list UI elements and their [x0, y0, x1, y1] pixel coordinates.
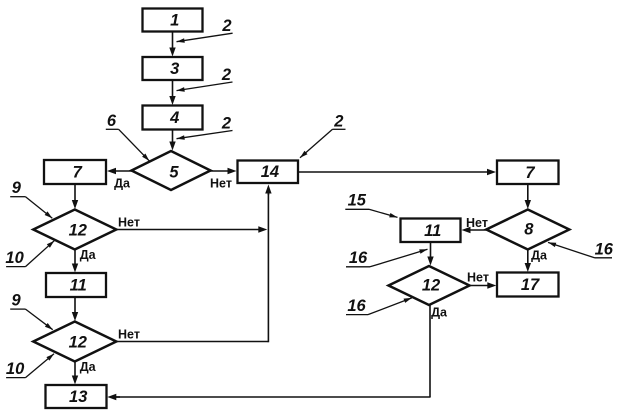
- svg-text:Нет: Нет: [467, 271, 489, 285]
- box 11 left: [46, 273, 106, 297]
- svg-text:17: 17: [521, 276, 540, 294]
- arrow 3-4: [172, 80, 174, 100]
- arrow 12a-11: [74, 250, 76, 268]
- arrow 5-7 Da: [112, 170, 131, 172]
- svg-text:Нет: Нет: [210, 177, 232, 191]
- svg-text:13: 13: [69, 388, 87, 406]
- svg-text:12: 12: [69, 222, 87, 240]
- svg-text:16: 16: [595, 240, 614, 258]
- box 7 left: [44, 160, 106, 184]
- arrow 12b-13: [74, 361, 76, 379]
- svg-text:1: 1: [170, 12, 179, 30]
- svg-text:2: 2: [221, 66, 231, 84]
- diamond 12c: [389, 266, 470, 305]
- arrow 12c-17: [470, 285, 491, 287]
- svg-text:2: 2: [221, 17, 231, 35]
- diamond 12b: [33, 322, 116, 362]
- svg-text:16: 16: [347, 297, 366, 315]
- svg-text:2: 2: [333, 113, 343, 131]
- svg-text:11: 11: [70, 277, 87, 295]
- svg-text:Да: Да: [531, 249, 548, 263]
- arrow 8-17: [527, 250, 529, 267]
- svg-text:Да: Да: [431, 306, 448, 320]
- diamond 8: [486, 210, 569, 250]
- svg-text:7: 7: [73, 164, 83, 182]
- arrow 11right-12c: [430, 242, 432, 260]
- svg-text:Да: Да: [114, 177, 131, 191]
- arrow 7left-12a: [74, 184, 76, 204]
- arrow 8-11right: [467, 229, 486, 231]
- svg-text:11: 11: [424, 222, 441, 240]
- wire 12b net up to 14: [116, 341, 268, 343]
- arrow 4-5: [172, 130, 174, 146]
- svg-text:16: 16: [349, 249, 368, 267]
- svg-text:Нет: Нет: [118, 216, 140, 230]
- svg-text:14: 14: [261, 163, 279, 181]
- box 14: [238, 161, 299, 184]
- arrow 7right-8: [527, 184, 529, 204]
- svg-text:10: 10: [6, 360, 25, 378]
- box 11 right: [401, 219, 461, 243]
- box 7 right: [497, 161, 559, 185]
- svg-text:3: 3: [170, 60, 179, 78]
- svg-text:6: 6: [107, 112, 117, 130]
- svg-text:4: 4: [169, 109, 179, 127]
- svg-text:Да: Да: [80, 248, 97, 262]
- svg-text:5: 5: [169, 164, 179, 182]
- svg-text:2: 2: [221, 115, 231, 133]
- arrow 11-12b: [74, 297, 76, 316]
- box 13: [46, 385, 107, 408]
- wire 12c down left to 13: [429, 304, 431, 397]
- svg-text:10: 10: [5, 249, 24, 267]
- diamond 12a: [33, 210, 116, 250]
- arrow 1-3: [172, 32, 174, 52]
- svg-text:12: 12: [69, 334, 87, 352]
- arrow 5-14 Net: [211, 170, 232, 172]
- arrow 12a-net: [116, 229, 262, 231]
- diamond 5: [132, 151, 211, 190]
- svg-text:12: 12: [422, 277, 440, 295]
- svg-text:Нет: Нет: [118, 328, 140, 342]
- box 1: [143, 9, 203, 32]
- arrow 14-7right: [298, 171, 491, 173]
- svg-text:9: 9: [12, 179, 22, 197]
- box 4: [143, 106, 203, 130]
- svg-text:9: 9: [12, 291, 22, 309]
- svg-text:8: 8: [524, 221, 534, 239]
- box 17: [497, 273, 559, 297]
- svg-text:7: 7: [525, 164, 535, 182]
- svg-text:15: 15: [348, 192, 367, 210]
- svg-text:Да: Да: [80, 360, 97, 374]
- box 3: [143, 57, 203, 80]
